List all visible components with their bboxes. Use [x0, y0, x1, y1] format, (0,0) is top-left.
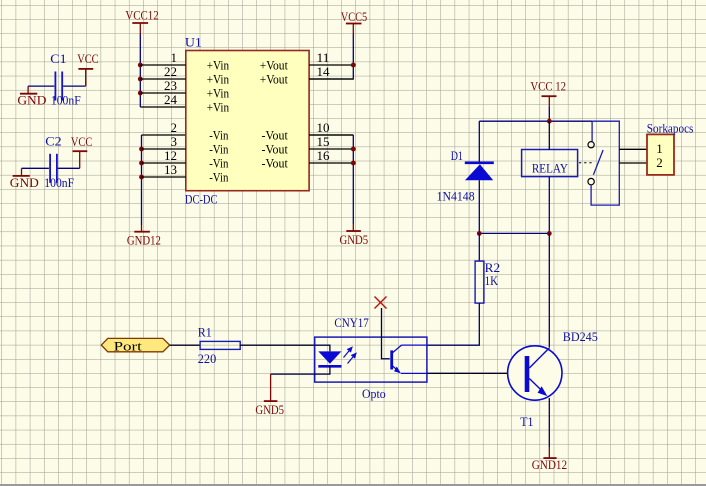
wire T1 emitter down	[548, 398, 550, 447]
U1 pin 23	[140, 79, 229, 100]
power VCC 12 (relay branch)	[530, 78, 566, 107]
ground GND12 (under T1)	[532, 447, 567, 472]
wire VCC12 bus	[139, 34, 141, 107]
svg-text:12: 12	[164, 149, 177, 163]
svg-text:1: 1	[656, 142, 663, 156]
no-ERC marker X	[375, 297, 387, 309]
svg-text:R1: R1	[198, 324, 212, 339]
relay-switch dashed link	[579, 162, 592, 164]
wire D1 cathode	[478, 121, 480, 162]
svg-text:220: 220	[198, 351, 216, 366]
wire VCC12 node horizontal	[479, 107, 592, 121]
junction (140.3,93)	[138, 91, 143, 96]
svg-text:GND5: GND5	[340, 232, 369, 247]
wire connector pin2	[619, 162, 647, 164]
power VCC5 (top right)	[341, 9, 367, 34]
U1 pin 14	[260, 65, 354, 86]
U1 pin 22	[140, 65, 229, 86]
svg-text:2: 2	[171, 121, 178, 135]
svg-text:VCC 12: VCC 12	[530, 78, 566, 93]
wire R2 top	[478, 233, 480, 261]
svg-text:-Vin: -Vin	[209, 128, 228, 142]
U1 pin 3	[142, 135, 229, 156]
wire C2 left	[22, 167, 49, 169]
resistor R2	[475, 260, 500, 303]
svg-text:GND: GND	[10, 175, 39, 190]
wire relay top pin	[548, 121, 550, 149]
wire GND5 bus	[309, 134, 353, 136]
wire C1 right	[63, 85, 86, 87]
connector Sorkapocs	[647, 120, 694, 175]
transistor T1 BD245	[508, 329, 598, 429]
ground GND5 (under U1)	[340, 224, 369, 247]
wire bottom node horizontal	[479, 232, 549, 234]
svg-text:-Vin: -Vin	[209, 156, 228, 170]
U1 pin 11	[260, 51, 354, 72]
port Port	[101, 338, 169, 353]
wire C1 left	[28, 85, 54, 87]
bottom gray strip	[0, 484, 706, 486]
svg-text:U1: U1	[185, 35, 202, 50]
junction (141.5,163)	[139, 161, 144, 166]
svg-text:-Vout: -Vout	[262, 156, 289, 170]
wire connector pin1	[619, 148, 647, 150]
wire C2 right	[58, 167, 80, 169]
U1 pin 24	[164, 93, 229, 114]
wire R2 bottom to opto collector	[427, 303, 479, 345]
svg-text:+Vout: +Vout	[260, 72, 289, 86]
svg-text:1K: 1K	[485, 273, 499, 288]
junction (141.5,177)	[139, 175, 144, 180]
junction (353.3,149)	[351, 147, 356, 152]
wire Port to R1	[170, 344, 200, 346]
svg-text:2: 2	[656, 156, 663, 170]
wire GND12 bus	[142, 134, 186, 136]
wire VCC5 bus	[352, 34, 354, 80]
svg-text:14: 14	[317, 65, 330, 79]
ground GND (C2)	[13, 175, 30, 177]
op-amp U1 DC-DC converter body	[185, 35, 309, 207]
U1 pin 16	[262, 149, 354, 170]
diode D1 1N4148	[437, 148, 494, 204]
svg-text:23: 23	[164, 79, 177, 93]
svg-text:13: 13	[164, 163, 177, 177]
U1 pin 2	[171, 121, 229, 142]
svg-text:11: 11	[317, 51, 330, 65]
svg-text:T1: T1	[520, 414, 533, 429]
svg-text:C2: C2	[45, 134, 61, 149]
svg-text:-Vout: -Vout	[262, 128, 289, 142]
U1 pin 10	[262, 121, 354, 142]
svg-text:GND5: GND5	[255, 402, 284, 417]
svg-text:16: 16	[317, 149, 330, 163]
power VCC12 (top left)	[125, 7, 158, 34]
svg-text:-Vin: -Vin	[209, 170, 228, 184]
svg-text:VCC12: VCC12	[125, 7, 158, 22]
junction (549.3,233.4)	[547, 231, 552, 236]
U1 pin 12	[142, 149, 229, 170]
svg-text:+Vin: +Vin	[207, 72, 229, 86]
svg-text:CNY17: CNY17	[334, 315, 369, 330]
svg-text:VCC: VCC	[71, 134, 92, 149]
svg-text:100nF: 100nF	[44, 175, 74, 190]
U1 pin 15	[262, 135, 354, 156]
capacitor C1	[17, 51, 98, 107]
svg-text:10: 10	[317, 121, 330, 135]
svg-text:1: 1	[171, 51, 178, 65]
svg-text:BD245: BD245	[563, 329, 598, 344]
svg-text:-Vin: -Vin	[209, 142, 228, 156]
wire R1 to opto anode	[240, 344, 315, 346]
junction (140.3,79)	[138, 77, 143, 82]
capacitor C1 plates	[54, 72, 56, 101]
svg-text:+Vin: +Vin	[207, 100, 229, 114]
svg-text:GND12: GND12	[532, 457, 567, 472]
optocoupler U? CNY17	[315, 315, 427, 401]
svg-text:3: 3	[171, 135, 178, 149]
wire T1 collector	[548, 233, 550, 347]
opto LED cathode bend	[315, 366, 330, 374]
switch SW (relay contact)	[588, 121, 619, 205]
svg-text:GND12: GND12	[127, 232, 161, 247]
relay coil U? RELAY box	[522, 150, 578, 177]
power VCC (C2)	[73, 150, 88, 152]
U1 pin 1	[140, 51, 229, 72]
ground GND12 (under U1)	[127, 225, 161, 247]
svg-text:GND: GND	[17, 93, 46, 108]
svg-text:C1: C1	[50, 51, 66, 66]
ground GND (C1)	[20, 93, 37, 95]
junction (140.3,65)	[138, 63, 143, 68]
wire opto cathode to GND5	[271, 373, 315, 375]
junction (549.3,121.2)	[547, 119, 552, 124]
svg-text:Opto: Opto	[362, 386, 386, 401]
capacitor C2 plates	[49, 154, 51, 183]
svg-text:VCC: VCC	[77, 51, 98, 66]
opto LED cathode bar	[318, 365, 341, 368]
svg-text:+Vin: +Vin	[207, 58, 229, 72]
svg-text:+Vin: +Vin	[207, 86, 229, 100]
capacitor C2	[10, 134, 93, 190]
junction (353.3,65)	[351, 63, 356, 68]
svg-text:-Vout: -Vout	[262, 142, 289, 156]
wire relay bottom pin	[548, 177, 550, 234]
svg-text:+Vout: +Vout	[260, 58, 289, 72]
U1 pin 13	[142, 163, 229, 184]
svg-text:DC-DC: DC-DC	[185, 192, 218, 207]
opto LED triangle	[318, 351, 341, 363]
junction (479.3,233.4)	[477, 231, 482, 236]
wire D1 anode down	[478, 180, 480, 233]
opto emission arrows	[344, 347, 356, 363]
svg-text:24: 24	[164, 93, 177, 107]
junction (141.5,149)	[139, 147, 144, 152]
power VCC (C1)	[78, 68, 93, 70]
opto LED anode bend	[315, 345, 330, 351]
ground GND5 (opto)	[255, 394, 284, 417]
svg-text:22: 22	[164, 65, 177, 79]
junction (353.3,163)	[351, 161, 356, 166]
svg-text:RELAY: RELAY	[532, 161, 569, 176]
svg-text:Sorkapocs: Sorkapocs	[647, 120, 694, 135]
opto phototransistor	[392, 345, 427, 373]
svg-text:D1: D1	[451, 148, 463, 163]
svg-text:100nF: 100nF	[51, 93, 81, 108]
opto phototransistor base pin + X no-connect	[382, 308, 390, 359]
svg-text:15: 15	[317, 135, 330, 149]
svg-text:Port: Port	[114, 340, 143, 354]
svg-text:VCC5: VCC5	[341, 9, 367, 24]
svg-text:1N4148: 1N4148	[437, 188, 475, 203]
resistor R1	[198, 324, 240, 366]
wire opto emitter to T1 base	[427, 372, 525, 374]
